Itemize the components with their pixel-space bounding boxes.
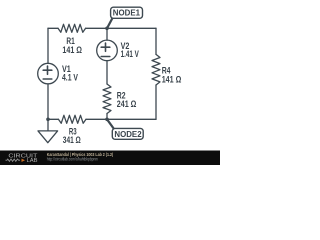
wire left branch V1 top	[47, 28, 49, 63]
svg-text:141 Ω: 141 Ω	[162, 75, 182, 85]
junction node2 dot	[105, 118, 109, 122]
svg-text:4.1 V: 4.1 V	[62, 73, 78, 83]
resistor R4	[152, 54, 160, 85]
svg-text:NODE1: NODE1	[113, 9, 141, 18]
wire V2 bottom to R2	[106, 61, 108, 84]
NODE2 label box	[112, 128, 143, 139]
NODE2 callout tail	[107, 119, 114, 129]
svg-text:LAB: LAB	[27, 158, 38, 164]
wire R4 bottom to bottom rail	[155, 85, 157, 119]
resistor R2	[103, 84, 111, 114]
resistor R3	[58, 115, 86, 123]
wire bottom rail left segment	[48, 118, 58, 120]
V2 plus minus marks	[101, 43, 110, 56]
svg-text:1.41 V: 1.41 V	[121, 49, 139, 59]
voltage source V2	[97, 40, 118, 61]
wire R2 bottom to bottom rail	[106, 114, 108, 120]
junction node1 dot	[105, 27, 109, 31]
V1 plus minus marks	[43, 66, 52, 79]
svg-text:341 Ω: 341 Ω	[63, 135, 81, 145]
svg-text:http://circuitlab.com/c/kahtbk: http://circuitlab.com/c/kahtbkpbpnm	[47, 157, 99, 162]
svg-text:241 Ω: 241 Ω	[117, 99, 137, 109]
svg-text:141 Ω: 141 Ω	[62, 45, 82, 55]
voltage source V1	[38, 63, 59, 84]
svg-text:NODE2: NODE2	[114, 130, 142, 139]
wire R3 to node2 junction	[86, 118, 107, 120]
wire node2 junction to bottom-right corner	[107, 118, 156, 120]
CircuitLab logo arrow	[22, 159, 26, 162]
wire middle branch V2 top	[106, 28, 108, 40]
wire ground stem	[47, 119, 49, 131]
wire node1 junction to top-right corner	[107, 27, 156, 29]
footer bar	[0, 151, 220, 166]
junction ground dot	[46, 118, 50, 122]
CircuitLab logo zigzag	[6, 159, 21, 161]
resistor R1	[58, 24, 86, 32]
wire top rail	[48, 27, 58, 29]
NODE1 label box	[111, 7, 143, 18]
wire R1 to node1 junction	[86, 27, 107, 29]
ground	[38, 131, 58, 143]
NODE1 callout tail	[107, 18, 113, 28]
wire right branch top	[155, 28, 157, 54]
wire V1 bottom to bottom rail	[47, 84, 49, 119]
